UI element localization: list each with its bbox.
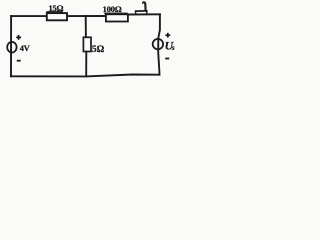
svg-text:15Ω: 15Ω — [48, 3, 63, 13]
switch handle — [143, 2, 146, 10]
wire top right segment (box to switch to corner) — [128, 13, 160, 15]
wire left vertical — [10, 16, 12, 76]
wire middle branch lower — [85, 52, 87, 77]
svg-text:4V: 4V — [20, 44, 30, 53]
label + (right source) — [165, 33, 170, 38]
voltage source 4V (left circle) — [7, 42, 16, 53]
switch contact tick left — [135, 11, 137, 14]
label 100ohm underline — [104, 12, 127, 14]
wire right vertical — [158, 14, 160, 74]
wire bottom — [11, 75, 159, 77]
voltage source Us (right circle) — [153, 39, 163, 49]
switch blade bar — [135, 10, 148, 12]
resistor R 5ohm (middle vertical box) — [83, 37, 91, 51]
wire top middle segment — [67, 15, 106, 17]
label + (left source) — [16, 35, 21, 40]
label - (left source) — [17, 60, 21, 62]
switch S (closed knife switch) — [135, 2, 148, 13]
svg-text:100Ω: 100Ω — [102, 4, 121, 14]
resistor R 100ohm (top-right box) — [106, 14, 128, 21]
wire top left segment — [11, 15, 47, 17]
resistor R 15ohm (top-left box) — [47, 13, 67, 20]
switch contact tick right — [146, 11, 148, 14]
wire middle branch upper — [85, 16, 87, 37]
svg-text:s: s — [171, 44, 175, 52]
svg-text:5Ω: 5Ω — [92, 45, 105, 55]
label - (right source) — [165, 58, 169, 60]
label 15ohm underline — [46, 11, 63, 13]
